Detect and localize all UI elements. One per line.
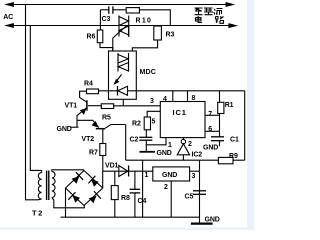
svg-text:R9: R9 (229, 153, 238, 160)
svg-text:R4: R4 (84, 81, 93, 88)
svg-text:VT1: VT1 (65, 103, 78, 110)
svg-text:GND: GND (205, 217, 220, 224)
svg-text:MDC: MDC (140, 69, 157, 76)
svg-text:AC: AC (3, 14, 13, 21)
svg-text:C1: C1 (230, 137, 239, 144)
svg-text:R1: R1 (225, 102, 234, 109)
svg-text:C5: C5 (185, 194, 194, 201)
svg-text:VD1: VD1 (105, 163, 119, 170)
svg-text:2: 2 (188, 141, 192, 148)
svg-text:VT2: VT2 (82, 136, 95, 143)
svg-text:T2: T2 (32, 209, 44, 218)
svg-text:GND: GND (203, 145, 218, 152)
svg-text:1: 1 (168, 142, 172, 149)
svg-text:GND: GND (157, 150, 172, 157)
svg-text:GND: GND (162, 172, 177, 179)
svg-text:R2: R2 (132, 121, 141, 128)
svg-text:6: 6 (208, 126, 212, 133)
svg-text:3: 3 (192, 173, 196, 180)
svg-text:3: 3 (150, 98, 154, 105)
svg-text:IC1: IC1 (173, 108, 187, 117)
svg-text:R8: R8 (121, 195, 130, 202)
svg-text:R10: R10 (136, 18, 153, 25)
svg-text:R3: R3 (166, 32, 175, 39)
svg-text:GND: GND (57, 126, 72, 133)
svg-text:1: 1 (145, 172, 149, 179)
svg-text:R7: R7 (89, 150, 98, 157)
svg-text:5: 5 (152, 119, 156, 126)
svg-text:IC2: IC2 (192, 152, 203, 159)
svg-text:7: 7 (208, 111, 212, 118)
svg-text:R6: R6 (87, 34, 96, 41)
svg-text:C4: C4 (138, 198, 147, 205)
svg-text:2: 2 (164, 184, 168, 191)
svg-text:C2: C2 (130, 137, 139, 144)
svg-text:C3: C3 (102, 16, 111, 23)
svg-text:8: 8 (192, 95, 196, 102)
svg-text:4: 4 (163, 96, 167, 103)
svg-text:R5: R5 (102, 115, 111, 122)
